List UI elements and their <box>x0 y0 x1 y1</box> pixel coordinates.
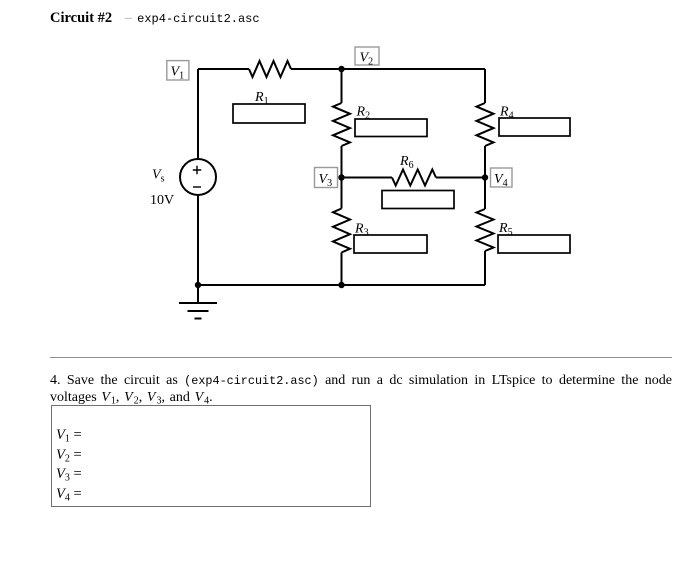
junction dot ground node <box>195 282 201 288</box>
resistor R3 (zigzag, vertical, middle rail lower) <box>333 209 350 253</box>
svg-text:R6: R6 <box>399 154 414 171</box>
svg-text:R4: R4 <box>499 105 514 122</box>
node label box V3 <box>315 168 338 190</box>
wire: top-right segment from R1 to right rail <box>291 68 485 70</box>
value box R5 <box>498 235 570 253</box>
junction dot node V3 <box>338 174 344 180</box>
wire: right rail top (top wire down to R4) <box>484 69 486 103</box>
wire: middle rail mid (R2 to R3 through V3 node) <box>341 146 343 209</box>
junction dot bottom middle <box>338 282 344 288</box>
circuit schematic <box>0 0 700 340</box>
value box R3 <box>354 235 427 253</box>
svg-text:R2: R2 <box>356 105 371 122</box>
wire: top-left segment from V1 corner to R1 <box>198 68 249 70</box>
value box R1 <box>233 104 305 123</box>
resistor R4 (zigzag, vertical, right rail upper) <box>477 103 494 146</box>
resistor R1 (zigzag, horizontal, top wire) <box>249 61 291 77</box>
title: Circuit #2 - exp4-circuit2.asc <box>50 10 260 27</box>
question paragraph <box>50 373 672 405</box>
wire: middle rail bottom (R3 to bottom wire) <box>341 253 343 286</box>
junction dot node V2 <box>338 66 344 72</box>
wire: left rail lower (source - down to ground node) <box>197 195 199 285</box>
answer box <box>51 405 371 507</box>
ground <box>179 285 217 319</box>
answer lines V1..V4 <box>56 426 82 505</box>
svg-text:R3: R3 <box>354 222 369 239</box>
junction dot node V4 <box>482 174 488 180</box>
wire: left rail upper (V1 node down to source +) <box>197 69 199 159</box>
wire: middle horizontal right (R6 to V4 node) <box>436 177 485 179</box>
wire: middle horizontal left (V3 node to R6) <box>342 177 393 179</box>
resistor R6 (zigzag, horizontal, middle wire) <box>392 170 436 186</box>
svg-text:R5: R5 <box>498 221 513 238</box>
voltage source Vs circle <box>180 159 216 195</box>
node label box V4 <box>491 168 513 189</box>
horizontal rule <box>50 357 672 358</box>
node label box V2 <box>355 47 379 68</box>
wire: right rail mid (R4 to R5 through V4 node) <box>484 146 486 209</box>
value box R4 <box>499 118 570 136</box>
svg-text:10V: 10V <box>150 193 174 208</box>
wire: right rail bottom (R5 to bottom wire) <box>484 251 486 285</box>
resistor R5 (zigzag, vertical, right rail lower) <box>477 209 494 251</box>
resistor R2 (zigzag, vertical, middle rail upper) <box>333 103 350 146</box>
node label box V1 <box>167 61 189 82</box>
svg-text:R1: R1 <box>254 90 269 107</box>
value box R2 <box>355 119 427 137</box>
wire: middle rail top (V2 node down to R2) <box>341 69 343 103</box>
svg-text:Vs: Vs <box>152 168 165 185</box>
wire: bottom wire (ground node to right rail) <box>198 284 485 286</box>
value box R6 <box>382 191 454 209</box>
